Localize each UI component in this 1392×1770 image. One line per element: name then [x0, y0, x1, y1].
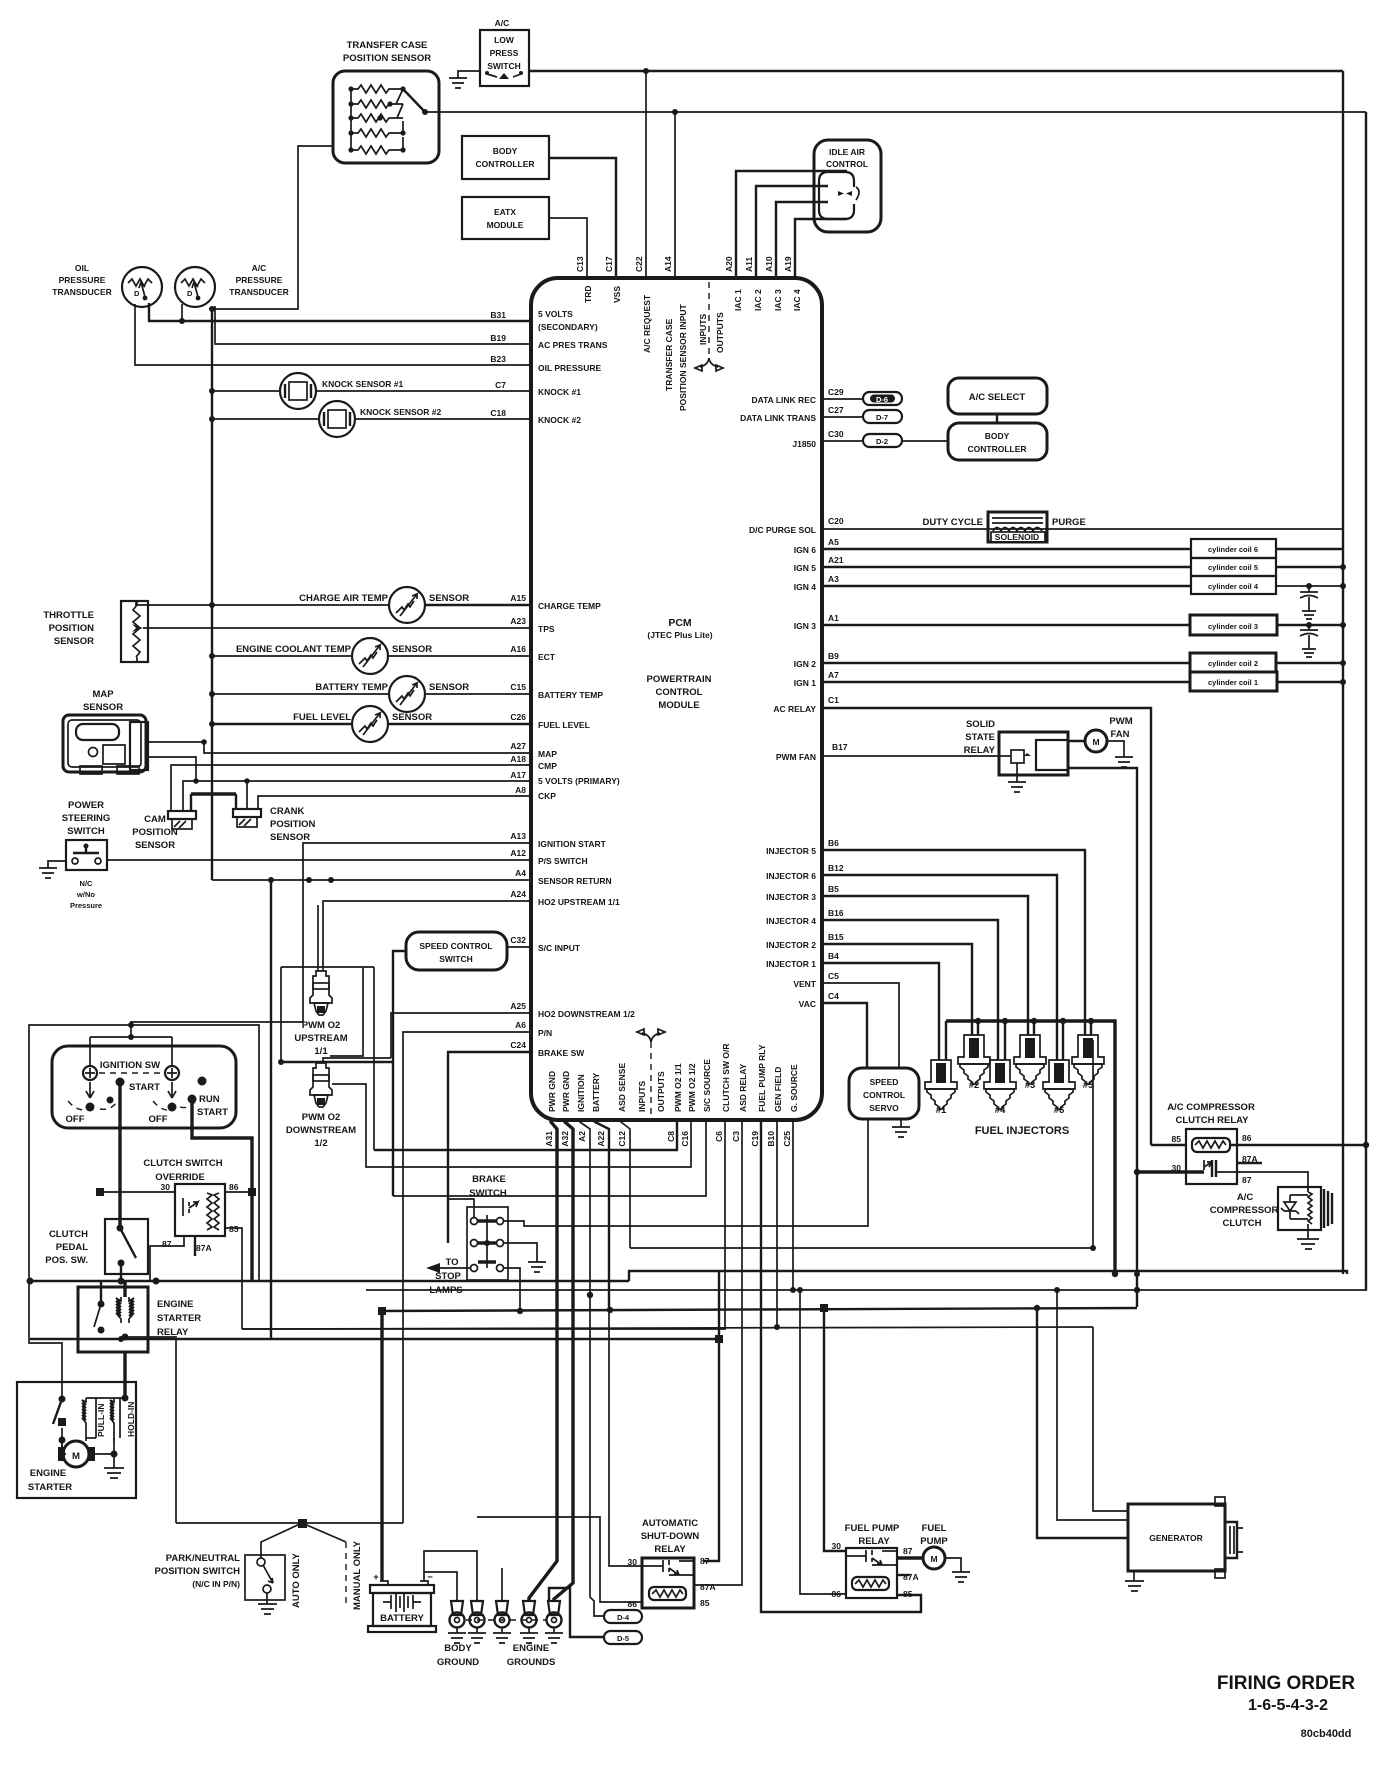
PCM bottom pin labels (rotated): [544, 1044, 799, 1147]
svg-text:cylinder coil 6: cylinder coil 6: [1208, 545, 1258, 554]
horizontal bus y1327: [242, 1327, 1093, 1329]
svg-text:A24: A24: [510, 889, 526, 899]
svg-text:ENGINE: ENGINE: [513, 1643, 549, 1654]
wire C18 knock 2: [212, 418, 531, 420]
C16 pwm o2 1/2 return: [332, 1084, 691, 1167]
starter motor: [58, 1438, 118, 1467]
svg-text:30: 30: [161, 1182, 171, 1192]
wire fp86: [800, 1290, 846, 1594]
svg-text:cylinder coil 3: cylinder coil 3: [1208, 622, 1258, 631]
svg-text:C15: C15: [510, 682, 526, 692]
wire A16 ect: [212, 655, 531, 657]
fuel pump relay: [832, 1523, 919, 1599]
wire battery + feed: [380, 1311, 383, 1581]
svg-text:B17: B17: [832, 742, 848, 752]
svg-text:A6: A6: [515, 1020, 526, 1030]
svg-text:B23: B23: [490, 354, 506, 364]
data link connector D-7: [822, 410, 902, 423]
wire B31 5 volts secondary: [149, 303, 531, 321]
svg-text:SWITCH: SWITCH: [67, 826, 105, 837]
svg-text:PUMP: PUMP: [920, 1536, 948, 1547]
wire C24 brake sw: [448, 1052, 531, 1243]
body controller (top): [462, 136, 549, 179]
svg-text:C19: C19: [750, 1131, 760, 1147]
svg-text:BATTERY TEMP: BATTERY TEMP: [315, 682, 388, 693]
ground at A/C clutch: [1297, 1230, 1319, 1249]
svg-text:FUEL LEVEL: FUEL LEVEL: [538, 720, 590, 730]
svg-text:CLUTCH SWITCH: CLUTCH SWITCH: [143, 1158, 222, 1169]
wire relay 85: [1151, 1144, 1186, 1146]
svg-text:IGNITION: IGNITION: [576, 1074, 586, 1112]
svg-text:C3: C3: [731, 1131, 741, 1142]
svg-text:CRANK: CRANK: [270, 806, 304, 817]
pwm fan motor: [1068, 716, 1133, 752]
svg-text:ENGINE: ENGINE: [157, 1299, 193, 1310]
wire relay 87A: [1237, 1162, 1262, 1164]
svg-text:A20: A20: [724, 256, 734, 272]
crank position sensor: [233, 806, 316, 843]
svg-text:HO2 UPSTREAM 1/1: HO2 UPSTREAM 1/1: [538, 897, 620, 907]
svg-text:MODULE: MODULE: [658, 700, 699, 711]
ground at park/neutral: [258, 1593, 277, 1614]
engine coolant temp sensor: [236, 638, 432, 674]
svg-text:SOLENOID: SOLENOID: [995, 532, 1039, 542]
svg-text:CLUTCH: CLUTCH: [1222, 1218, 1261, 1229]
ground lug engine 1: [493, 1568, 511, 1643]
A/C compressor clutch relay: [1167, 1102, 1257, 1185]
svg-text:D: D: [187, 289, 193, 298]
svg-text:FAN: FAN: [1111, 729, 1130, 740]
svg-text:AUTOMATIC: AUTOMATIC: [642, 1518, 698, 1529]
svg-text:POSITION SENSOR INPUT: POSITION SENSOR INPUT: [678, 303, 688, 411]
svg-text:IGNITION START: IGNITION START: [538, 839, 607, 849]
svg-text:VAC: VAC: [799, 999, 816, 1009]
wire B15 injector 2: [822, 944, 972, 1035]
far right bus (from transfer case line): [1365, 112, 1367, 1290]
svg-text:CONTROLLER: CONTROLLER: [967, 444, 1026, 454]
svg-text:FUEL INJECTORS: FUEL INJECTORS: [975, 1125, 1069, 1137]
svg-text:A2: A2: [577, 1131, 587, 1142]
transfer case selector switch arm: [403, 89, 425, 112]
cylinder coil 1: [822, 681, 1190, 683]
C25 g source: [792, 1120, 794, 1290]
wire A24 ho2 upstream: [318, 901, 531, 971]
svg-text:SWITCH: SWITCH: [487, 61, 521, 71]
wire battery negative to grounds: [424, 1551, 477, 1601]
svg-text:cylinder coil 4: cylinder coil 4: [1208, 582, 1259, 591]
svg-text:THROTTLE: THROTTLE: [43, 610, 94, 621]
svg-text:D-5: D-5: [617, 1634, 629, 1643]
C12 asd sense: [621, 1120, 630, 1248]
svg-text:FUEL PUMP RLY: FUEL PUMP RLY: [757, 1044, 767, 1112]
wire transfer case switch to A14 and right bus: [425, 111, 1366, 113]
A/C select: [948, 378, 1047, 414]
svg-text:POWER: POWER: [68, 800, 104, 811]
charge air temp sensor: [299, 587, 469, 623]
svg-text:cylinder coil 1: cylinder coil 1: [1208, 678, 1258, 687]
ground at power steering switch: [39, 861, 66, 878]
cylinder coil 4: [822, 585, 1191, 587]
wire B4 injector 1: [822, 963, 939, 1060]
svg-text:FUEL PUMP: FUEL PUMP: [845, 1523, 900, 1534]
svg-text:PWM: PWM: [1109, 716, 1132, 727]
svg-text:C4: C4: [828, 991, 839, 1001]
wire run/start down: [192, 1099, 252, 1281]
svg-text:IGN 6: IGN 6: [794, 545, 816, 555]
svg-text:IAC 2: IAC 2: [753, 289, 763, 311]
svg-text:C7: C7: [495, 380, 506, 390]
svg-text:KNOCK #1: KNOCK #1: [538, 387, 581, 397]
svg-text:B9: B9: [828, 651, 839, 661]
svg-text:INJECTOR 1: INJECTOR 1: [766, 959, 816, 969]
svg-text:D-4: D-4: [617, 1613, 630, 1622]
svg-text:RELAY: RELAY: [654, 1544, 686, 1555]
svg-text:A/C: A/C: [1237, 1192, 1254, 1203]
svg-text:B19: B19: [490, 333, 506, 343]
svg-text:30: 30: [832, 1541, 842, 1551]
wire EATX to C13: [549, 218, 587, 278]
svg-text:#2: #2: [969, 1080, 980, 1091]
O2 sensor upstream: [294, 971, 347, 1057]
svg-text:IAC 1: IAC 1: [733, 289, 743, 311]
svg-text:PRESSURE: PRESSURE: [59, 275, 106, 285]
svg-text:INJECTOR 4: INJECTOR 4: [766, 916, 816, 926]
svg-text:CAM: CAM: [144, 814, 166, 825]
svg-text:POS. SW.: POS. SW.: [45, 1255, 88, 1266]
svg-text:A7: A7: [828, 670, 839, 680]
svg-text:B10: B10: [766, 1131, 776, 1147]
wire C20 duty cycle purge: [822, 528, 1343, 530]
svg-text:KNOCK SENSOR #1: KNOCK SENSOR #1: [322, 379, 404, 389]
wire clutch override 87: [150, 1236, 184, 1281]
svg-text:ASD SENSE: ASD SENSE: [617, 1063, 627, 1112]
svg-text:S/C SOURCE: S/C SOURCE: [702, 1059, 712, 1112]
svg-text:SERVO: SERVO: [869, 1103, 899, 1113]
svg-text:A8: A8: [515, 785, 526, 795]
svg-text:PEDAL: PEDAL: [56, 1242, 88, 1253]
svg-text:86: 86: [832, 1589, 842, 1599]
svg-text:A17: A17: [510, 770, 526, 780]
fuel injector #2: [958, 1035, 990, 1091]
svg-text:OUTPUTS: OUTPUTS: [715, 312, 725, 353]
svg-text:FUEL LEVEL: FUEL LEVEL: [293, 712, 351, 723]
svg-text:POWERTRAIN: POWERTRAIN: [647, 674, 712, 685]
svg-text:(N/C IN P/N): (N/C IN P/N): [192, 1579, 240, 1589]
svg-text:POSITION SWITCH: POSITION SWITCH: [155, 1566, 241, 1577]
svg-text:DOWNSTREAM: DOWNSTREAM: [286, 1125, 356, 1136]
svg-text:PARK/NEUTRAL: PARK/NEUTRAL: [166, 1553, 240, 1564]
S/C source: [393, 1120, 706, 1196]
capacitor C-coil3: [1300, 622, 1318, 657]
svg-text:C25: C25: [782, 1131, 792, 1147]
wire A/C low press switch to C22 and right bus: [529, 70, 1343, 72]
A/C low press switch: [480, 18, 529, 86]
duty cycle purge solenoid: [988, 512, 1047, 542]
svg-text:87A: 87A: [196, 1243, 212, 1253]
svg-text:A5: A5: [828, 537, 839, 547]
ground lug engine 2: [520, 1601, 538, 1643]
wire body controller to C17: [549, 158, 616, 278]
ground at pwm fan: [1107, 741, 1133, 767]
wire generator feed 2: [1057, 1290, 1128, 1520]
svg-text:85: 85: [903, 1589, 913, 1599]
wire A17 5 volts primary: [183, 781, 531, 811]
svg-text:SENSOR: SENSOR: [429, 593, 469, 604]
svg-text:BODY: BODY: [493, 146, 518, 156]
svg-text:OIL: OIL: [75, 263, 89, 273]
cylinder coil 3: [822, 624, 1190, 626]
fuel pump motor: [897, 1523, 948, 1569]
PCM powertrain control module U1: [531, 278, 822, 1120]
svg-text:B15: B15: [828, 932, 844, 942]
wire brake top feed: [448, 1199, 474, 1217]
svg-text:w/No: w/No: [76, 890, 95, 899]
cylinder coil 6: [822, 548, 1191, 550]
ground lug body 2: [468, 1601, 486, 1643]
svg-text:D: D: [134, 289, 140, 298]
svg-text:C32: C32: [510, 935, 526, 945]
svg-text:C12: C12: [617, 1131, 627, 1147]
svg-text:PWM O2: PWM O2: [302, 1020, 341, 1031]
A32 pwr gnd: [554, 1120, 573, 1601]
ground at generator: [1125, 1571, 1144, 1591]
svg-text:86: 86: [229, 1182, 239, 1192]
svg-text:(SECONDARY): (SECONDARY): [538, 322, 598, 332]
EATX module: [462, 197, 549, 239]
horizontal bus y1290: [366, 1289, 1367, 1291]
svg-text:ECT: ECT: [538, 652, 556, 662]
wire A6 p/n: [403, 1032, 531, 1523]
wire generator feed 1: [1093, 1327, 1128, 1511]
svg-text:INJECTOR 5: INJECTOR 5: [766, 846, 816, 856]
A2 ignition: [580, 1120, 604, 1616]
svg-text:Pressure: Pressure: [70, 901, 102, 910]
svg-text:B6: B6: [828, 838, 839, 848]
svg-text:CMP: CMP: [538, 761, 557, 771]
svg-text:DATA LINK TRANS: DATA LINK TRANS: [740, 413, 816, 423]
wire B23 oil pressure: [135, 304, 531, 365]
ground at engine starter: [104, 1454, 124, 1478]
svg-text:A27: A27: [510, 741, 526, 751]
wire A12 p/s switch: [107, 859, 531, 861]
svg-text:VSS: VSS: [612, 286, 622, 303]
cam position sensor: [132, 811, 196, 851]
wire A27 map: [148, 742, 531, 753]
svg-text:IGN 4: IGN 4: [794, 582, 816, 592]
svg-text:B31: B31: [490, 310, 506, 320]
svg-text:SPEED CONTROL: SPEED CONTROL: [419, 941, 492, 951]
wire relay 86: [1230, 1144, 1366, 1146]
ground lug body 1: [448, 1601, 466, 1643]
PCM right pin labels: [740, 387, 848, 1009]
svg-text:A3: A3: [828, 574, 839, 584]
svg-text:C17: C17: [604, 256, 614, 272]
svg-text:HOLD-IN: HOLD-IN: [126, 1402, 136, 1437]
svg-text:A15: A15: [510, 593, 526, 603]
svg-text:SENSOR: SENSOR: [135, 840, 175, 851]
svg-text:#1: #1: [936, 1105, 947, 1116]
svg-text:AUTO ONLY: AUTO ONLY: [291, 1552, 302, 1608]
svg-text:CKP: CKP: [538, 791, 556, 801]
svg-text:A14: A14: [663, 256, 673, 272]
svg-text:IAC 4: IAC 4: [792, 289, 802, 311]
wire fp30 feed: [824, 1308, 846, 1551]
svg-text:#4: #4: [995, 1105, 1006, 1116]
wire from sensor to left bus: [212, 146, 333, 309]
wire clutch override 86: [225, 1191, 252, 1193]
svg-text:C26: C26: [510, 712, 526, 722]
svg-text:MAP: MAP: [538, 749, 557, 759]
svg-text:TPS: TPS: [538, 624, 555, 634]
C8 pwm o2 1/1 return: [374, 1120, 677, 1150]
wire map 5v: [148, 757, 196, 781]
IAC wires A20 A11 A10 A19: [736, 171, 847, 278]
svg-text:IGN 3: IGN 3: [794, 621, 816, 631]
svg-text:A1: A1: [828, 613, 839, 623]
wire A13 ignition start: [131, 843, 531, 1037]
svg-text:INPUTS: INPUTS: [698, 314, 708, 346]
svg-text:TRD: TRD: [583, 286, 593, 303]
C3 asd relay: [695, 1120, 742, 1585]
throttle position sensor: [43, 601, 148, 662]
svg-text:C24: C24: [510, 1040, 526, 1050]
svg-text:A31: A31: [544, 1131, 554, 1147]
svg-text:INJECTOR 3: INJECTOR 3: [766, 892, 816, 902]
wire A14: [674, 112, 676, 278]
svg-text:85: 85: [229, 1224, 239, 1234]
svg-text:OFF: OFF: [66, 1114, 85, 1125]
svg-text:PWM O2 1/2: PWM O2 1/2: [687, 1063, 697, 1112]
wire asd 86: [477, 1517, 642, 1602]
engine starter relay: [78, 1287, 201, 1352]
svg-text:INJECTOR 2: INJECTOR 2: [766, 940, 816, 950]
svg-text:P/N: P/N: [538, 1028, 552, 1038]
svg-text:SWITCH: SWITCH: [439, 954, 473, 964]
svg-text:C6: C6: [714, 1131, 724, 1142]
svg-text:B4: B4: [828, 951, 839, 961]
svg-text:A25: A25: [510, 1001, 526, 1011]
svg-text:#6: #6: [1054, 1105, 1065, 1116]
fuel injector #4: [984, 1060, 1016, 1116]
wire relay 30: [1137, 1170, 1204, 1173]
svg-text:D-6: D-6: [876, 395, 888, 404]
svg-text:SENSOR: SENSOR: [83, 702, 123, 713]
svg-text:OUTPUTS: OUTPUTS: [656, 1071, 666, 1112]
svg-text:INPUTS: INPUTS: [637, 1081, 647, 1113]
svg-text:PWM O2: PWM O2: [302, 1112, 341, 1123]
svg-text:INJECTOR 6: INJECTOR 6: [766, 871, 816, 881]
svg-text:D-7: D-7: [876, 413, 888, 422]
svg-text:BATTERY: BATTERY: [591, 1072, 601, 1112]
wire brake switch to servo: [504, 1119, 868, 1226]
wire solid state relay lower output: [1068, 768, 1137, 1307]
wire B17 pwm fan: [822, 755, 1011, 757]
svg-text:SENSOR: SENSOR: [270, 832, 310, 843]
ground lug engine 3: [545, 1601, 563, 1643]
svg-text:IDLE AIR: IDLE AIR: [829, 147, 865, 157]
svg-text:CLUTCH: CLUTCH: [49, 1229, 88, 1240]
engine starter: [17, 1382, 136, 1498]
data link connector D-6: [822, 392, 902, 405]
svg-text:86: 86: [1242, 1133, 1252, 1143]
wire asd 87 feed: [703, 1271, 719, 1561]
svg-text:RELAY: RELAY: [964, 745, 996, 756]
clutch pedal position switch: [45, 1219, 148, 1274]
svg-text:(JTEC Plus Lite): (JTEC Plus Lite): [647, 630, 712, 640]
svg-text:POSITION SENSOR: POSITION SENSOR: [343, 53, 431, 64]
auto only / manual only split: [298, 1519, 307, 1528]
right supply bus (from A/C press switch): [1342, 71, 1344, 1274]
svg-text:PWM O2 1/1: PWM O2 1/1: [673, 1063, 683, 1112]
svg-text:B12: B12: [828, 863, 844, 873]
fuel injector #6: [1043, 1060, 1075, 1116]
idle air control: [814, 140, 881, 232]
svg-text:GROUND: GROUND: [437, 1657, 479, 1668]
svg-text:IGNITION SW: IGNITION SW: [100, 1060, 160, 1071]
svg-text:86: 86: [628, 1599, 638, 1609]
svg-text:CONTROL: CONTROL: [656, 687, 703, 698]
svg-text:UPSTREAM: UPSTREAM: [294, 1033, 347, 1044]
wire clutch override 30: [100, 1191, 175, 1193]
svg-text:PRESSURE: PRESSURE: [236, 275, 283, 285]
transfer case position sensor: [333, 40, 439, 163]
svg-text:80cb40dd: 80cb40dd: [1301, 1728, 1352, 1740]
svg-text:A13: A13: [510, 831, 526, 841]
A22 battery: [595, 1120, 609, 1310]
svg-text:SENSOR RETURN: SENSOR RETURN: [538, 876, 612, 886]
svg-text:87: 87: [700, 1556, 710, 1566]
svg-text:SENSOR: SENSOR: [429, 682, 469, 693]
ignition switch: [52, 1046, 236, 1128]
svg-text:A11: A11: [744, 257, 754, 272]
svg-text:B16: B16: [828, 908, 844, 918]
svg-text:87A: 87A: [903, 1572, 919, 1582]
wire B5 injector 3: [822, 896, 1028, 1035]
svg-text:CHARGE AIR TEMP: CHARGE AIR TEMP: [299, 593, 389, 604]
svg-text:C20: C20: [828, 516, 844, 526]
svg-text:SENSOR: SENSOR: [392, 644, 432, 655]
svg-text:CONTROL: CONTROL: [826, 159, 868, 169]
svg-text:C29: C29: [828, 387, 844, 397]
svg-text:A16: A16: [510, 644, 526, 654]
svg-text:N/C: N/C: [80, 879, 94, 888]
svg-text:J1850: J1850: [792, 439, 816, 449]
inputs/outputs dashed divider bottom: [637, 1029, 665, 1118]
cylinder coil 5: [822, 566, 1191, 568]
svg-text:C5: C5: [828, 971, 839, 981]
wire B6 injector 5: [822, 850, 1085, 1035]
svg-text:A19: A19: [783, 256, 793, 272]
svg-text:D-2: D-2: [876, 437, 888, 446]
wire C7 knock 1: [212, 390, 531, 392]
resistor ladder inside transfer case sensor: [351, 85, 403, 154]
wire C22: [645, 71, 647, 278]
horizontal bus y1271: [629, 1271, 1347, 1281]
svg-text:START: START: [129, 1082, 160, 1093]
wire C4 vac: [822, 1003, 867, 1068]
wire B16 injector 4: [822, 920, 998, 1060]
outer wire loop left: [29, 1025, 259, 1399]
svg-text:TRANSFER CASE: TRANSFER CASE: [347, 40, 428, 51]
wire C15 battery temp: [212, 693, 531, 695]
svg-text:PULL-IN: PULL-IN: [96, 1403, 106, 1437]
horizontal bus y1281: [29, 1280, 629, 1282]
ground at A/C low press switch: [449, 71, 480, 88]
wire relay 87 to clutch: [1216, 1172, 1308, 1190]
svg-text:C18: C18: [490, 408, 506, 418]
svg-text:87: 87: [903, 1546, 913, 1556]
svg-text:POSITION: POSITION: [49, 623, 95, 634]
